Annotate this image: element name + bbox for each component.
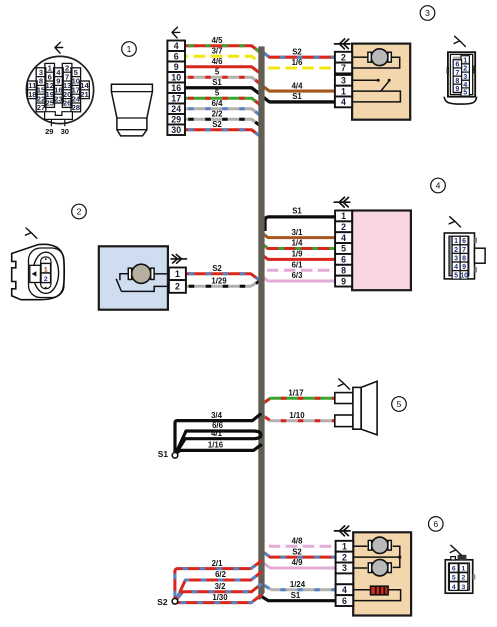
svg-text:S2: S2 <box>157 597 168 607</box>
svg-text:2: 2 <box>77 207 82 217</box>
svg-text:1: 1 <box>341 211 346 221</box>
svg-text:3: 3 <box>454 255 458 262</box>
svg-text:1: 1 <box>341 86 346 96</box>
svg-text:18: 18 <box>28 90 36 99</box>
svg-text:4/6: 4/6 <box>212 57 224 66</box>
svg-text:5: 5 <box>397 399 402 409</box>
svg-text:24: 24 <box>171 104 181 114</box>
svg-text:16: 16 <box>54 86 62 95</box>
svg-text:9: 9 <box>455 84 459 93</box>
svg-text:5: 5 <box>215 88 220 97</box>
svg-text:29: 29 <box>171 114 181 124</box>
svg-text:8: 8 <box>39 77 43 86</box>
svg-text:6: 6 <box>452 566 456 573</box>
svg-text:2: 2 <box>44 276 48 283</box>
svg-text:4: 4 <box>341 233 346 243</box>
svg-text:6: 6 <box>342 596 347 606</box>
svg-text:21: 21 <box>80 90 89 99</box>
svg-text:2: 2 <box>454 247 458 254</box>
svg-text:S2: S2 <box>292 547 302 556</box>
svg-text:2: 2 <box>341 52 346 62</box>
svg-text:S1: S1 <box>292 207 302 216</box>
svg-text:6: 6 <box>433 519 438 529</box>
svg-text:4: 4 <box>341 97 346 107</box>
svg-text:1: 1 <box>127 44 132 54</box>
svg-text:2: 2 <box>175 282 180 292</box>
svg-text:1: 1 <box>342 541 347 551</box>
svg-text:10: 10 <box>171 72 181 82</box>
svg-text:4/8: 4/8 <box>292 536 304 545</box>
svg-text:1/4: 1/4 <box>292 239 304 248</box>
svg-text:1/6: 1/6 <box>292 58 304 67</box>
svg-text:1: 1 <box>462 566 466 573</box>
svg-text:3: 3 <box>39 68 43 77</box>
svg-text:S1: S1 <box>158 449 169 459</box>
svg-text:2: 2 <box>462 575 466 582</box>
svg-text:3: 3 <box>462 584 466 591</box>
svg-text:8: 8 <box>462 255 466 262</box>
svg-text:7: 7 <box>341 63 346 73</box>
svg-text:1/16: 1/16 <box>208 441 224 450</box>
svg-text:1/29: 1/29 <box>211 277 227 286</box>
svg-text:10: 10 <box>460 273 468 280</box>
svg-text:4/1: 4/1 <box>211 429 223 438</box>
svg-text:6/3: 6/3 <box>292 271 304 280</box>
svg-text:4: 4 <box>436 181 441 191</box>
svg-text:1/17: 1/17 <box>288 388 303 397</box>
svg-text:5: 5 <box>454 273 458 280</box>
svg-text:30: 30 <box>171 125 181 135</box>
svg-text:7: 7 <box>462 247 466 254</box>
svg-text:1: 1 <box>454 238 458 245</box>
svg-text:27: 27 <box>37 103 45 112</box>
svg-text:17: 17 <box>171 93 181 103</box>
svg-text:12: 12 <box>45 81 53 90</box>
svg-text:1: 1 <box>44 266 48 273</box>
svg-text:17: 17 <box>72 86 80 95</box>
svg-text:11: 11 <box>28 81 37 90</box>
svg-text:1/30: 1/30 <box>212 593 228 602</box>
svg-text:29: 29 <box>45 127 53 136</box>
svg-text:S1: S1 <box>292 92 302 101</box>
svg-text:6: 6 <box>341 255 346 265</box>
svg-text:2/2: 2/2 <box>212 109 224 118</box>
svg-text:6/4: 6/4 <box>212 99 224 108</box>
svg-text:16: 16 <box>171 83 181 93</box>
svg-text:28: 28 <box>72 103 80 112</box>
svg-text:S1: S1 <box>291 591 301 600</box>
svg-text:2: 2 <box>65 64 69 73</box>
svg-text:1: 1 <box>175 269 180 279</box>
svg-text:3: 3 <box>341 76 346 86</box>
svg-text:6: 6 <box>462 238 466 245</box>
svg-text:9: 9 <box>462 264 466 271</box>
svg-text:1/24: 1/24 <box>290 580 306 589</box>
svg-text:10: 10 <box>72 77 80 86</box>
svg-text:4: 4 <box>342 585 347 595</box>
svg-text:9: 9 <box>341 276 346 286</box>
svg-text:4: 4 <box>174 41 179 51</box>
svg-text:1/10: 1/10 <box>289 411 305 420</box>
svg-text:8: 8 <box>341 265 346 275</box>
svg-text:26: 26 <box>63 99 71 108</box>
svg-text:5: 5 <box>452 575 456 582</box>
svg-text:S2: S2 <box>292 47 302 56</box>
svg-text:9: 9 <box>56 77 60 86</box>
svg-text:3: 3 <box>425 8 430 18</box>
svg-text:6: 6 <box>174 51 179 61</box>
svg-text:S2: S2 <box>212 120 222 129</box>
svg-text:2: 2 <box>342 552 347 562</box>
svg-text:1/9: 1/9 <box>292 250 304 259</box>
svg-text:3/4: 3/4 <box>211 411 223 420</box>
svg-text:4: 4 <box>454 264 458 271</box>
svg-text:6/2: 6/2 <box>215 570 227 579</box>
svg-text:4/5: 4/5 <box>212 36 224 45</box>
svg-text:13: 13 <box>63 81 71 90</box>
svg-text:5: 5 <box>341 244 346 254</box>
svg-text:20: 20 <box>63 90 71 99</box>
svg-text:2: 2 <box>341 222 346 232</box>
svg-text:4/9: 4/9 <box>292 558 304 567</box>
svg-text:14: 14 <box>80 81 89 90</box>
svg-text:4: 4 <box>452 584 456 591</box>
svg-text:6/1: 6/1 <box>292 260 304 269</box>
svg-text:30: 30 <box>61 127 69 136</box>
svg-text:23: 23 <box>54 94 62 103</box>
svg-text:S1: S1 <box>212 78 222 87</box>
svg-text:4/4: 4/4 <box>292 81 304 90</box>
svg-text:22: 22 <box>37 94 45 103</box>
svg-text:9: 9 <box>174 62 179 72</box>
svg-text:3/1: 3/1 <box>292 228 304 237</box>
svg-text:3: 3 <box>342 563 347 573</box>
svg-text:7: 7 <box>65 72 69 81</box>
svg-text:5: 5 <box>463 88 467 97</box>
svg-text:3/7: 3/7 <box>212 46 223 55</box>
svg-text:3/2: 3/2 <box>215 582 227 591</box>
svg-text:6: 6 <box>48 72 52 81</box>
svg-text:S2: S2 <box>212 264 222 273</box>
svg-text:2/1: 2/1 <box>212 559 224 568</box>
svg-text:19: 19 <box>45 90 53 99</box>
svg-text:5: 5 <box>215 67 220 76</box>
